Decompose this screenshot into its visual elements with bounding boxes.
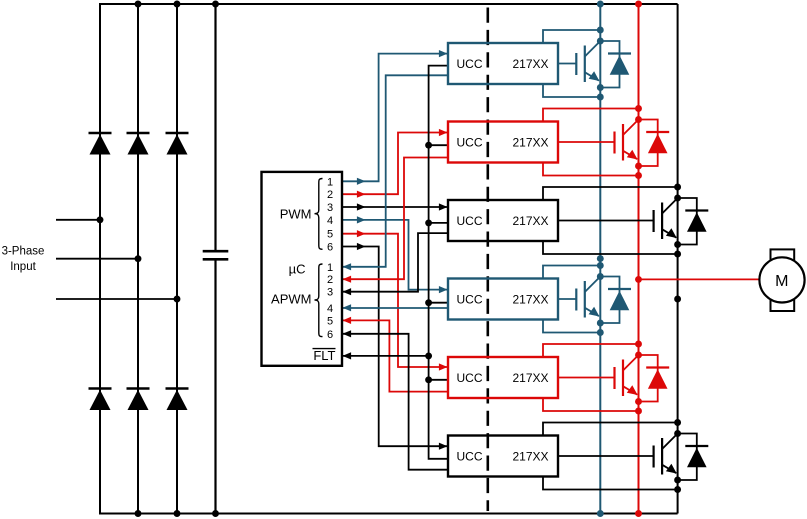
node driver 5 connections [635,341,642,415]
wire phase input B [56,258,138,260]
node top rail junctions [135,1,642,8]
svg-text:PWM: PWM [280,206,312,221]
wire PWM6 [342,243,448,450]
wire driver 3 supply loops [543,187,678,254]
wire phase leg U (teal) [599,4,601,514]
svg-text:6: 6 [327,242,333,254]
wire PWM4 [342,216,448,293]
transistor Q1 [576,41,600,82]
svg-text:217XX: 217XX [512,449,548,463]
wire driver 6 supply loops [543,423,678,490]
wire driver 2 supply loops [543,109,639,176]
wire DC- bottom rail [99,513,678,515]
op-amp U3 gate driver UCC 217XX [448,122,558,163]
wire phase input C [56,298,177,300]
svg-text:FLT: FLT [313,348,335,363]
diode D11 (freewheel) [639,355,670,402]
node driver 4 connections [597,262,604,336]
wire capacitor branch top [214,4,216,251]
svg-text:UCC: UCC [457,57,483,71]
op-amp U4 gate driver UCC 217XX fill [448,200,558,241]
transistor Q5 [615,355,639,396]
transistor Q2 [615,120,639,161]
diode D9 (freewheel) [678,198,709,245]
wire FLT net [342,66,448,459]
svg-text:4: 4 [327,303,333,315]
wire APWM5 [342,317,448,392]
op-amp U6 gate driver UCC 217XX [448,357,558,398]
node input junctions [97,216,181,302]
wire APWM6 [342,330,448,470]
transistor Q3 [654,198,678,239]
op-amp U2 gate driver UCC 217XX fill [448,43,558,84]
svg-text:1: 1 [327,176,333,188]
svg-text:APWM: APWM [271,291,311,306]
svg-text:2: 2 [327,274,333,286]
op-amp U4 gate driver UCC 217XX [448,200,558,241]
diode D2 [127,133,150,155]
node isolation boundary (dashed) [486,8,489,512]
svg-text:Input: Input [10,261,36,273]
motor M1 [759,249,804,311]
diode D7 (freewheel) [600,41,631,88]
svg-text:2: 2 [327,189,333,201]
diode D8 (freewheel) [639,120,670,167]
wire driver 5 supply loops [543,344,639,411]
diode D12 (freewheel) [678,434,709,481]
wire phase input A [56,219,100,221]
svg-text:M: M [775,273,788,290]
op-amp U5 gate driver UCC 217XX [448,279,558,320]
svg-text:6: 6 [327,329,333,341]
op-amp U6 gate driver UCC 217XX fill [448,357,558,398]
svg-text:UCC: UCC [457,135,483,149]
wire PWM1 [342,50,448,185]
svg-text:217XX: 217XX [512,57,548,71]
svg-text:217XX: 217XX [512,292,548,306]
node driver 3 connections [674,184,681,258]
diode D6 [166,389,189,411]
wire phase leg V (red) [638,4,640,514]
node phase W output [674,296,681,303]
wire driver 1 supply loops [543,30,600,97]
svg-text:217XX: 217XX [512,214,548,228]
node phase U output [597,255,604,262]
label 3-Phase Input [2,246,45,274]
wire APWM4 [342,304,448,311]
wire capacitor branch bottom [214,259,216,513]
wire rectifier leg 2 [137,4,139,514]
op-amp U3 gate driver UCC 217XX fill [448,122,558,163]
svg-text:217XX: 217XX [512,135,548,149]
svg-text:1: 1 [327,262,333,274]
wire PWM5 [342,230,448,371]
diode D5 [127,389,150,411]
node phase V output [635,276,642,283]
node driver 2 connections [635,105,642,179]
svg-text:5: 5 [327,229,333,241]
wire driver 4 supply loops [543,266,600,333]
wire rectifier leg 3 [176,4,178,514]
svg-text:3: 3 [327,202,333,214]
op-amp U1 microcontroller block [262,172,343,366]
svg-text:UCC: UCC [457,214,483,228]
svg-text:µC: µC [289,262,306,277]
svg-text:UCC: UCC [457,371,483,385]
svg-text:3: 3 [327,287,333,299]
diode D1 [89,133,112,155]
node driver 1 connections [597,27,604,101]
op-amp U7 gate driver UCC 217XX [448,436,558,477]
wire APWM2 [342,158,448,283]
svg-text:4: 4 [327,215,333,227]
transistor Q6 [654,434,678,475]
svg-text:3-Phase: 3-Phase [2,246,45,258]
svg-text:217XX: 217XX [512,371,548,385]
wire PWM3 [342,203,448,210]
wire phase leg W (black) [677,4,679,514]
diode D10 (freewheel) [600,277,631,324]
svg-text:5: 5 [327,315,333,327]
wire motor phase feed [639,278,761,280]
wire rectifier leg 1 [99,3,101,515]
op-amp U5 gate driver UCC 217XX fill [448,279,558,320]
diode D4 [89,389,112,411]
svg-text:UCC: UCC [457,449,483,463]
diode D3 [166,133,189,155]
op-amp U7 gate driver UCC 217XX fill [448,436,558,477]
capacitor C1 [203,251,229,259]
node bottom rail junctions [135,510,642,517]
wire PWM2 [342,129,448,198]
wire DC+ top rail [99,3,678,5]
op-amp U2 gate driver UCC 217XX [448,43,558,84]
node driver 6 connections [674,419,681,493]
transistor Q4 [576,277,600,318]
svg-text:UCC: UCC [457,292,483,306]
wire APWM1 [342,75,448,270]
wire APWM3 [342,233,448,295]
